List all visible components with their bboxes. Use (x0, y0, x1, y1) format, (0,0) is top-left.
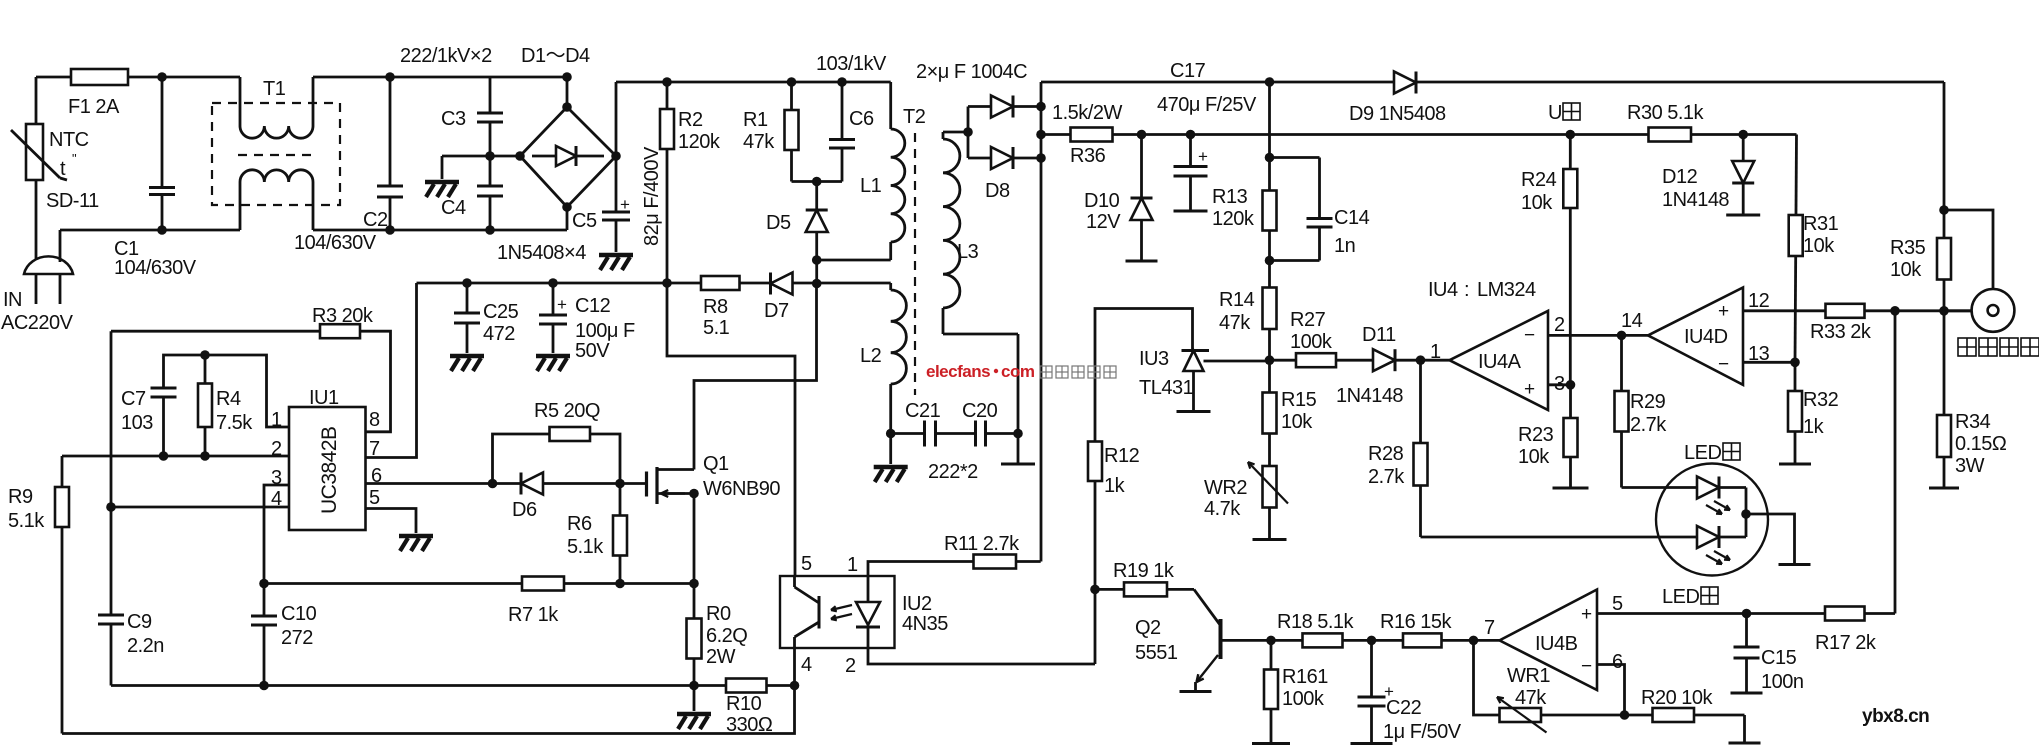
opto LED (867, 576, 870, 602)
svg-text:C14: C14 (1334, 207, 1370, 229)
node R4 bottom (200, 451, 210, 461)
wire socket left (1944, 309, 1972, 312)
svg-text:TL431: TL431 (1139, 377, 1194, 399)
svg-text:5.1: 5.1 (703, 317, 730, 339)
svg-text:D5: D5 (766, 212, 791, 234)
svg-text:WR1: WR1 (1507, 665, 1550, 687)
wire mid to bridge (490, 155, 520, 158)
capacitor C3 (489, 77, 492, 113)
node D5 anode (812, 255, 822, 265)
capacitor C25 (466, 283, 469, 313)
svg-text:2W: 2W (706, 646, 736, 668)
terminal bar C20 (1017, 434, 1020, 465)
node R10 right (790, 681, 800, 691)
wire top rail corner to R35 (1943, 82, 1946, 311)
resistor R8 (701, 276, 740, 290)
node C22 tap (1367, 636, 1377, 646)
svg-text:+: + (1581, 604, 1592, 625)
wire D5 node down (815, 260, 818, 284)
node Q1 source/R7 (689, 579, 699, 589)
svg-text:C5: C5 (572, 210, 597, 232)
diode D8a (968, 105, 991, 108)
wire C20 to L3 bottom (1017, 334, 1020, 434)
svg-text:−: − (1718, 354, 1729, 375)
node pin6/R20 (1620, 710, 1630, 720)
wire R3 line (111, 331, 391, 432)
node D11/R28/pin1 (1416, 355, 1426, 365)
svg-text:100μ F: 100μ F (575, 320, 635, 342)
resistor R36 (1071, 128, 1113, 142)
inductor L1 primary (889, 82, 892, 129)
capacitor C20 (974, 421, 977, 447)
svg-text:D11: D11 (1362, 324, 1396, 346)
charging socket (1972, 289, 2015, 332)
resistor R30 (1649, 128, 1692, 142)
node D8a out (1036, 102, 1046, 112)
svg-text:R33 2k: R33 2k (1810, 321, 1872, 343)
svg-text:5: 5 (801, 553, 812, 575)
node bridge top vertex (562, 102, 572, 112)
wire D8 branch vertical (967, 107, 970, 159)
svg-text:C25: C25 (483, 301, 519, 323)
svg-text:SD-11: SD-11 (46, 190, 99, 212)
resistor R23 (1569, 385, 1572, 488)
resistor R0 (693, 584, 696, 686)
wire R12 top (1095, 309, 1193, 665)
svg-text:R0: R0 (706, 603, 731, 625)
resistor R13 (1263, 191, 1277, 231)
svg-text:D9 1N5408: D9 1N5408 (1349, 103, 1446, 125)
node L2 bottom (886, 429, 896, 439)
resistor R3 (320, 324, 360, 338)
resistor R35 (1937, 238, 1951, 280)
resistor R34 (1943, 311, 1946, 488)
resistor R10 (726, 679, 767, 693)
wire R17 up (1894, 311, 1897, 614)
node pin4/C9 (106, 502, 116, 512)
svg-text:IU4B: IU4B (1535, 633, 1578, 655)
svg-text:AC220V: AC220V (1, 312, 74, 334)
capacitor C14 (1270, 156, 1320, 159)
svg-text:1.5k/2W: 1.5k/2W (1052, 102, 1122, 124)
resistor R7 (522, 577, 564, 591)
svg-text:R30 5.1k: R30 5.1k (1627, 102, 1705, 124)
ground C12 (536, 354, 570, 359)
wire source down (693, 494, 696, 584)
svg-text:IU4: IU4 (1428, 279, 1458, 301)
node VCC C12 (548, 278, 558, 288)
node C20 right (1013, 429, 1023, 439)
ground R0/R10 (693, 686, 696, 712)
MOSFET Q1 W6NB90 (645, 472, 648, 497)
wire VCC branch to opto pin5 (667, 283, 795, 576)
svg-text:222/1kV×2: 222/1kV×2 (400, 45, 492, 67)
node bridge top rail (562, 72, 572, 82)
resistor R12 (1088, 442, 1102, 482)
wire plug neutral (59, 230, 62, 262)
node C14 top (1265, 153, 1275, 163)
svg-text:4: 4 (271, 488, 282, 510)
svg-text:R34: R34 (1955, 411, 1991, 433)
wire bridge bottom (566, 207, 569, 230)
resistor R29 (1620, 335, 1623, 391)
optocoupler IU2 4N35 box (780, 576, 895, 648)
terminal WR2 ground (1253, 538, 1287, 541)
svg-text:0.15Ω: 0.15Ω (1955, 433, 2007, 455)
svg-text:1: 1 (271, 409, 282, 431)
fuse F1 (71, 69, 128, 85)
wire C7/R4 top line (164, 355, 290, 427)
resistor R24 (1569, 135, 1572, 385)
svg-text:−: − (1581, 656, 1592, 677)
wire VCC rail (417, 282, 891, 285)
wire TL431 ref (1204, 360, 1270, 363)
node R0 bottom (689, 681, 699, 691)
svg-text:1N4148: 1N4148 (1662, 189, 1729, 211)
svg-text:6.2Q: 6.2Q (706, 625, 747, 647)
svg-text:F1 2A: F1 2A (68, 96, 120, 118)
svg-text:C3: C3 (441, 108, 466, 130)
T1 top winding (239, 77, 242, 126)
node source (689, 489, 699, 499)
LED red (1697, 477, 1719, 499)
svg-text:R28: R28 (1368, 443, 1404, 465)
svg-text:100k: 100k (1282, 688, 1325, 710)
svg-text:5: 5 (1612, 593, 1623, 615)
wire R13 chain (1268, 82, 1271, 360)
inductor L3 secondary (942, 308, 945, 334)
svg-text:1: 1 (847, 554, 858, 576)
svg-text:2: 2 (1554, 314, 1565, 336)
svg-text:WR2: WR2 (1204, 477, 1247, 499)
svg-text:100n: 100n (1761, 671, 1804, 693)
svg-text:2×μ F 1004C: 2×μ F 1004C (916, 61, 1027, 83)
svg-text:C6: C6 (849, 108, 874, 130)
resistor R19 (1095, 588, 1194, 591)
node C15 tap (1742, 609, 1752, 619)
node VCC C25 (462, 278, 472, 288)
svg-text:R17 2k: R17 2k (1815, 632, 1877, 654)
node pin13/R31/R32 (1790, 358, 1800, 368)
wire output feedback vertical (1040, 82, 1043, 562)
opto light arrows (831, 605, 852, 610)
transformer T2 core dashed (914, 133, 916, 395)
svg-text:+: + (1718, 301, 1729, 322)
svg-text:C7: C7 (121, 388, 146, 410)
resistor R6 (619, 484, 622, 584)
svg-text:10k: 10k (1803, 235, 1835, 257)
diode D8b (968, 157, 991, 160)
resistor R32 (1794, 362, 1797, 464)
svg-text:R6: R6 (567, 513, 592, 535)
node bridge left vertex (515, 151, 525, 161)
svg-text:470μ F/25V: 470μ F/25V (1157, 94, 1257, 116)
zener D10 (1140, 135, 1143, 199)
node C14 bottom (1265, 256, 1275, 266)
node Q2 base/R18 (1266, 636, 1276, 646)
svg-text:5551: 5551 (1135, 642, 1178, 664)
svg-text:R9: R9 (8, 486, 33, 508)
node D8b out (1036, 153, 1046, 163)
transistor Q2 5551 (1194, 589, 1221, 625)
svg-text:D12: D12 (1662, 166, 1698, 188)
svg-text:R1: R1 (743, 109, 768, 131)
svg-text:Q1: Q1 (703, 453, 729, 475)
node VCC D7/D5 (812, 279, 822, 289)
wire pin3 (264, 485, 289, 584)
wire top rail to bridge (313, 76, 567, 79)
wire socket top (1944, 210, 1993, 289)
node bridge right vertex (611, 151, 621, 161)
wire bridge top (566, 77, 569, 107)
wire NTC branch (35, 77, 38, 124)
diode D12 (1742, 135, 1745, 163)
wire D5 to L1 bottom (817, 259, 891, 262)
svg-text::: : (1464, 279, 1469, 301)
T1 bottom winding (239, 182, 242, 230)
svg-text:1k: 1k (1104, 475, 1126, 497)
potentiometer WR2 (1268, 434, 1271, 540)
svg-text:C17: C17 (1170, 60, 1206, 82)
svg-text:R27: R27 (1290, 309, 1326, 331)
wire DC out top rail (1041, 81, 1944, 84)
svg-text:1μ F/50V: 1μ F/50V (1383, 721, 1462, 743)
svg-text:R5 20Q: R5 20Q (534, 400, 600, 422)
node C6 top (837, 77, 847, 87)
svg-text:L3: L3 (957, 241, 979, 263)
svg-text:C15: C15 (1761, 647, 1797, 669)
potentiometer WR1 (1474, 640, 1625, 715)
node LED common (1741, 509, 1751, 519)
wire to LED red (1622, 486, 1698, 489)
svg-text:IU3: IU3 (1139, 348, 1169, 370)
wire pin5 ground (366, 509, 417, 534)
svg-text:1N5408×4: 1N5408×4 (497, 242, 586, 264)
svg-text:103: 103 (121, 412, 153, 434)
svg-text:IU4D: IU4D (1684, 326, 1728, 348)
svg-text:+: + (620, 195, 630, 214)
node U charge (1566, 130, 1576, 140)
svg-text:C9: C9 (127, 611, 152, 633)
ground at bridge mid (425, 180, 459, 185)
svg-text:IN: IN (3, 289, 22, 311)
wire R1/C6 join (792, 180, 843, 183)
wire pin2 line (62, 455, 289, 458)
svg-text:10k: 10k (1518, 446, 1550, 468)
svg-text:D10: D10 (1084, 190, 1120, 212)
node C7 bottom (159, 451, 169, 461)
svg-text:3W: 3W (1955, 455, 1985, 477)
T1 core dashed line (238, 154, 315, 156)
ground L2/C21 (889, 434, 892, 465)
resistor R11 (974, 555, 1017, 569)
svg-text:C22: C22 (1386, 697, 1422, 719)
svg-text:6: 6 (1612, 651, 1623, 673)
svg-text:47k: 47k (1515, 687, 1547, 709)
svg-text:47k: 47k (743, 131, 775, 153)
svg-text:R24: R24 (1521, 169, 1557, 191)
wire pin6 gate line (366, 482, 647, 485)
diode D9 (1394, 72, 1416, 94)
resistor R18 (1303, 633, 1343, 647)
wire 12V rail (1041, 133, 1797, 136)
resistor R1 (790, 82, 793, 182)
svg-text:2.2n: 2.2n (127, 635, 164, 657)
node VCC R2 (662, 278, 672, 288)
svg-text:10k: 10k (1281, 411, 1313, 433)
svg-text:5: 5 (369, 487, 380, 509)
node C2 top (385, 72, 395, 82)
node pin6/R5 (488, 479, 498, 489)
wire R12 bottom to opto pin2 (868, 648, 1095, 664)
capacitor C2 (389, 77, 392, 186)
wire pin2 to IU4D out (1548, 334, 1648, 337)
node D10 top (1137, 130, 1147, 140)
node R12/R19 (1090, 585, 1100, 595)
wire LED to ground (1746, 514, 1795, 565)
resistor R5 (550, 427, 591, 441)
node R2 top (662, 77, 672, 87)
node socket tap (1939, 205, 1949, 215)
op-amp IU4D (1648, 288, 1743, 385)
svg-text:2: 2 (845, 655, 856, 677)
svg-text:R12: R12 (1104, 445, 1140, 467)
svg-text:120k: 120k (678, 131, 721, 153)
capacitor C4 (489, 156, 492, 186)
inductor L2 (889, 283, 892, 290)
svg-text:10k: 10k (1890, 259, 1922, 281)
wire mid to ground (442, 155, 490, 158)
svg-text:R10: R10 (726, 693, 762, 715)
node C3/C4 mid (485, 151, 495, 161)
svg-text:R35: R35 (1890, 237, 1926, 259)
wire R7 line (264, 582, 694, 585)
node pin3/R7 line (259, 579, 269, 589)
svg-text:1: 1 (1430, 341, 1441, 363)
svg-text:T1: T1 (263, 78, 286, 100)
node bridge bottom vertex (562, 202, 572, 212)
IC IU1 UC3842B (289, 407, 366, 530)
svg-text:4N35: 4N35 (902, 613, 948, 635)
svg-text:R15: R15 (1281, 389, 1317, 411)
node C10 bottom (259, 681, 269, 691)
svg-text:1n: 1n (1334, 235, 1355, 257)
svg-text:Q2: Q2 (1135, 617, 1161, 639)
wire LED common (1745, 488, 1748, 538)
resistor R2 (666, 82, 669, 283)
svg-text:LM324: LM324 (1477, 279, 1536, 301)
svg-text:R32: R32 (1803, 389, 1839, 411)
AC plug (24, 256, 73, 274)
resistor R31 (1795, 135, 1797, 363)
resistor R28 (1419, 360, 1422, 443)
wire pin13 line (1743, 361, 1795, 364)
node C17 rail (1186, 130, 1196, 140)
capacitor C12 electrolytic (552, 283, 555, 315)
opto phototransistor (818, 596, 821, 629)
diode D7 (771, 273, 793, 295)
capacitor C7 (162, 386, 165, 389)
node R6 bottom (615, 579, 625, 589)
node TL431/R14/R27 (1265, 355, 1275, 365)
node C2 bottom (385, 225, 395, 235)
svg-text:U: U (1548, 102, 1562, 124)
svg-text:C12: C12 (575, 295, 611, 317)
bridge rectifier D1-D4 (520, 107, 616, 207)
svg-text:R31: R31 (1803, 213, 1839, 235)
svg-text:82μ F/400V: 82μ F/400V (641, 146, 663, 246)
node C1 top (157, 72, 167, 82)
svg-text:2: 2 (271, 438, 282, 460)
diode D5 (815, 182, 818, 261)
svg-text:2.7k: 2.7k (1630, 414, 1667, 436)
svg-text:+: + (557, 295, 567, 314)
svg-text:10k: 10k (1521, 192, 1553, 214)
node R1 top (787, 77, 797, 87)
svg-text:12: 12 (1748, 290, 1770, 312)
node D6/R6 (615, 479, 625, 489)
ground C25 (450, 354, 484, 359)
wire pin6 (1597, 665, 1625, 716)
watermark chinese (1040, 366, 1052, 378)
node pin3/R23 (1566, 380, 1576, 390)
LED green (1697, 526, 1719, 548)
svg-text:IU1: IU1 (309, 387, 339, 409)
wire base line (1271, 639, 1500, 642)
capacitor C10 (263, 584, 266, 617)
resistor R16 (1403, 633, 1442, 647)
svg-text:4.7k: 4.7k (1204, 498, 1241, 520)
resistor R14 (1263, 288, 1277, 330)
svg-text:R20 10k: R20 10k (1641, 687, 1713, 709)
svg-text:104/630V: 104/630V (294, 232, 377, 254)
capacitor C5 electrolytic (615, 156, 618, 212)
svg-text:R4: R4 (216, 388, 241, 410)
svg-text:7: 7 (1484, 617, 1495, 639)
svg-text:D7: D7 (764, 300, 789, 322)
svg-text:R8: R8 (703, 296, 728, 318)
svg-text:103/1kV: 103/1kV (816, 53, 887, 75)
svg-text:L1: L1 (860, 175, 882, 197)
svg-text:R23: R23 (1518, 424, 1554, 446)
node C4 bottom (485, 225, 495, 235)
svg-text:472: 472 (483, 323, 515, 345)
wire vcc-gnd rail A (111, 684, 795, 687)
resistor R161 (1270, 640, 1273, 743)
node snubber join (812, 177, 822, 187)
svg-text:R7 1k: R7 1k (508, 604, 559, 626)
svg-text:R16 15k: R16 15k (1380, 611, 1452, 633)
svg-text:LED: LED (1662, 586, 1699, 608)
wire R3 left down (110, 331, 113, 507)
svg-text:+: + (1198, 147, 1208, 166)
svg-text:elecfans: elecfans (926, 362, 990, 381)
wire AC neutral bottom rail (60, 229, 240, 232)
diode D11 (1373, 349, 1395, 371)
svg-text:1k: 1k (1803, 416, 1825, 438)
resistor R17 (1825, 607, 1865, 621)
wire AC live top rail (36, 76, 240, 79)
svg-text:R11 2.7k: R11 2.7k (944, 533, 1020, 555)
wire pin5 line (1597, 612, 1895, 615)
svg-text:D6: D6 (512, 499, 537, 521)
svg-text:14: 14 (1621, 310, 1643, 332)
svg-text:ybx8.cn: ybx8.cn (1862, 706, 1929, 727)
svg-text:2.7k: 2.7k (1368, 466, 1405, 488)
wire DC+ rail (616, 81, 891, 84)
resistor R15 (1263, 393, 1277, 434)
node R36 tap (1036, 130, 1046, 140)
